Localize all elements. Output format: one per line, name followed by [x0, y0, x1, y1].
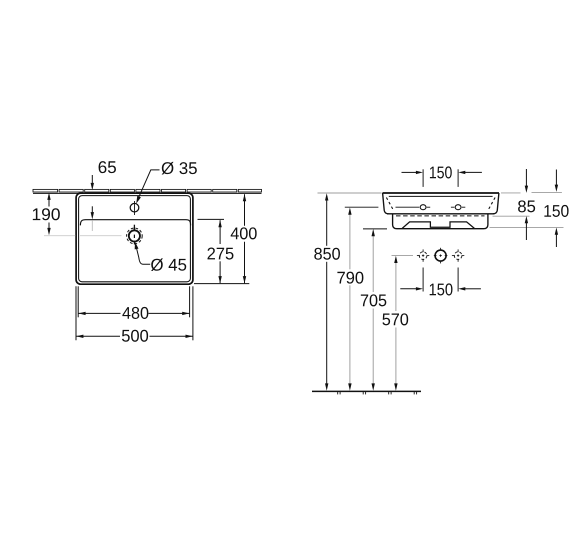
- fixing hole left: [420, 205, 426, 210]
- drain hole dashed circle (Ø45): [127, 228, 143, 244]
- basin right side: [493, 193, 499, 214]
- dim 190: [48, 198, 50, 207]
- dim 150 mounting holes: [400, 288, 416, 290]
- siphon bracket shape: [402, 222, 474, 229]
- dim 400: [244, 194, 246, 226]
- dim 65 lower arrow: [91, 206, 93, 213]
- dim text 190: [33, 208, 60, 220]
- dim 150 top: ext lines: [422, 169, 424, 187]
- dim text 275: [207, 248, 233, 260]
- mounting hole left (dashed): [419, 252, 427, 260]
- ext line basin bottom right: [194, 283, 249, 285]
- floor joint ticks: [338, 392, 417, 395]
- dim 570: [395, 258, 397, 311]
- basin inner top line: [389, 195, 493, 197]
- ext line 150 right bottom: [490, 227, 564, 229]
- dim 65 upper arrow: [91, 175, 93, 185]
- ext line 570 (mounting holes centerline extended left): [392, 255, 414, 257]
- mounting hole center: [435, 250, 446, 261]
- ext line 705 (cover bottom extended left): [363, 228, 387, 230]
- tap hole centerline: [134, 201, 136, 215]
- siphon cover outline: [393, 214, 488, 229]
- dim text 500: [122, 330, 148, 342]
- dim 500: [76, 335, 120, 337]
- bowl back edge line: [80, 220, 190, 226]
- leader Ø35: [136, 196, 141, 204]
- basin top edge: [383, 192, 500, 194]
- dim 150 right: [555, 170, 557, 187]
- ext line 790 (fixing holes extended left): [345, 206, 379, 208]
- ext line top right (85/150): [501, 192, 521, 194]
- drain hole solid circle: [129, 230, 140, 241]
- dim 85: [525, 169, 527, 188]
- fixing hole right: [455, 205, 461, 210]
- basin inner rim: [79, 196, 191, 282]
- leader Ø45: [135, 242, 139, 250]
- dim 850: [326, 196, 328, 246]
- dim text 400: [231, 227, 257, 239]
- ext line bowl edge right: [198, 218, 225, 220]
- left chamfer dashed: [386, 198, 393, 211]
- basin left side: [383, 193, 389, 214]
- wall tile band: [33, 189, 262, 192]
- tap hole (Ø35): [130, 203, 139, 212]
- drain vertical centerline: [133, 225, 135, 231]
- wall base line: [33, 192, 262, 194]
- dim 150 top: [402, 171, 417, 173]
- ext line 850 (top edge extended left): [318, 192, 382, 194]
- right chamfer dashed: [488, 198, 495, 211]
- ext line 85 bottom: [493, 215, 530, 217]
- mounting hole right (dashed): [454, 252, 462, 260]
- basin outer rim: [76, 193, 193, 284]
- dim 790: [349, 210, 351, 269]
- dim text Ø35: [162, 162, 197, 175]
- basin bottom line: [387, 213, 494, 215]
- dim 705: [372, 232, 374, 292]
- dim 480: [78, 312, 120, 314]
- floor line: [312, 390, 421, 392]
- ext lines 500: [75, 286, 77, 340]
- dim text Ø45: [151, 258, 186, 271]
- dim 275: [219, 220, 221, 244]
- ext lines 480: [77, 286, 79, 317]
- dim text 65: [99, 161, 116, 173]
- dashed line in cover: [396, 215, 485, 217]
- drain light centerline left: [44, 235, 75, 237]
- dim text 480: [122, 307, 148, 319]
- dim 150 mounting holes: ext lines: [422, 268, 424, 292]
